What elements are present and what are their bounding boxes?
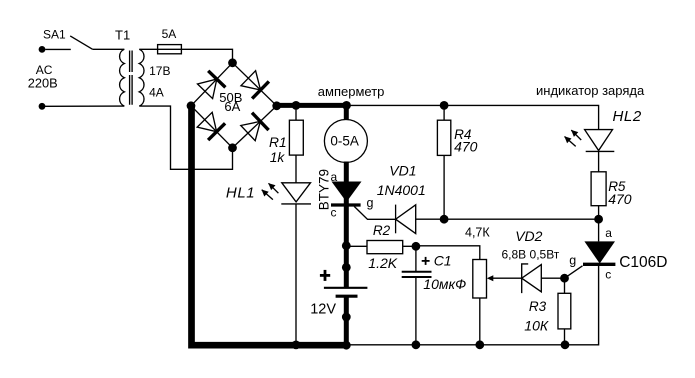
wire switch to transformer primary — [92, 48, 124, 50]
R1 leads — [295, 105, 297, 182]
bridge node top — [228, 58, 237, 67]
C106D cathode to bus — [346, 264, 598, 345]
svg-text:5А: 5А — [162, 27, 177, 41]
ammeter 0-5A — [324, 120, 367, 163]
svg-text:12V: 12V — [310, 302, 336, 318]
node R3 bottom — [561, 340, 570, 349]
fuse 5A — [158, 45, 182, 54]
label + battery — [320, 270, 330, 281]
svg-text:c: c — [605, 268, 611, 282]
label + C1 — [422, 257, 430, 265]
bridge diode top-left — [198, 71, 226, 99]
node pot bottom — [475, 340, 484, 349]
svg-text:g: g — [569, 253, 576, 267]
svg-text:HL1: HL1 — [226, 184, 255, 201]
svg-text:g: g — [367, 196, 374, 210]
thyristor BTY79 — [331, 162, 396, 288]
node VD1/R4 — [440, 215, 449, 224]
transformer T1 secondary winding — [139, 49, 144, 106]
resistor R3 — [558, 278, 571, 345]
node battery plus — [342, 263, 351, 272]
negative thick bus — [192, 106, 347, 345]
bridge diode bottom-left — [197, 112, 225, 140]
bridge node left — [187, 101, 196, 110]
node R2 right — [412, 242, 421, 251]
LED HL2 — [564, 130, 614, 172]
transformer core — [129, 51, 131, 105]
potentiometer 4.7K — [473, 260, 522, 345]
svg-text:BTY79: BTY79 — [316, 169, 331, 210]
svg-text:1.2K: 1.2K — [368, 255, 397, 271]
resistor R4 — [437, 105, 450, 219]
transformer T1 primary winding — [120, 49, 125, 106]
LED HL1 — [262, 183, 312, 345]
svg-text:6А: 6А — [224, 99, 240, 114]
svg-text:VD1: VD1 — [389, 162, 416, 178]
svg-text:a: a — [331, 170, 338, 184]
zener VD2 — [522, 264, 565, 293]
capacitor C1 — [402, 246, 432, 344]
node gate junction — [560, 274, 569, 283]
resistor R1 — [289, 120, 303, 155]
svg-text:T1: T1 — [115, 27, 130, 42]
node C1 bottom — [412, 340, 421, 349]
svg-text:6,8В 0,5Вт: 6,8В 0,5Вт — [502, 248, 560, 262]
node R2 tap — [342, 241, 351, 250]
bridge arm wires — [191, 63, 233, 106]
svg-text:c: c — [331, 206, 337, 220]
svg-text:амперметр: амперметр — [318, 84, 385, 99]
node R1 top — [292, 101, 301, 110]
svg-text:C1: C1 — [434, 252, 452, 268]
svg-text:индикатор заряда: индикатор заряда — [536, 83, 645, 98]
node battery minus — [342, 313, 351, 322]
wire secondary top through fuse to bridge top — [139, 49, 232, 63]
AC terminal bottom — [39, 103, 46, 110]
svg-text:220В: 220В — [28, 76, 58, 91]
svg-text:SA1: SA1 — [43, 28, 66, 42]
svg-text:C106D: C106D — [619, 254, 667, 271]
node R5/C106D — [594, 215, 603, 224]
wire primary bottom to AC terminal — [45, 105, 124, 107]
svg-text:10К: 10К — [524, 318, 549, 334]
wire R2 node to potentiometer — [416, 246, 480, 260]
wire VD1 to right — [416, 218, 599, 220]
positive bus (ammeter line) — [277, 103, 347, 108]
top wire to HL2 branch — [347, 105, 599, 129]
svg-text:10мкФ: 10мкФ — [423, 276, 466, 292]
resistor R2 — [346, 241, 416, 254]
svg-text:4,7К: 4,7К — [465, 226, 490, 240]
svg-text:4А: 4А — [149, 85, 164, 99]
resistor R5 — [591, 172, 606, 219]
svg-text:a: a — [605, 226, 612, 240]
svg-text:1N4001: 1N4001 — [377, 182, 426, 198]
svg-text:R1: R1 — [269, 135, 287, 150]
node ammeter bus — [342, 101, 351, 110]
svg-text:R2: R2 — [373, 223, 391, 238]
bridge node bottom — [228, 143, 237, 152]
svg-text:HL2: HL2 — [613, 108, 642, 125]
bridge diode bottom-right — [241, 113, 269, 141]
thyristor C106D — [565, 219, 616, 278]
svg-text:0-5A: 0-5A — [330, 133, 359, 148]
AC terminal top — [39, 46, 46, 53]
svg-text:R3: R3 — [529, 299, 547, 314]
wire secondary bottom to bridge bottom — [139, 106, 232, 169]
ammeter lead top — [344, 105, 349, 120]
svg-text:470: 470 — [454, 138, 478, 154]
switch SA1 — [45, 48, 71, 50]
bridge diode top-right — [241, 71, 269, 99]
node R4 top — [440, 101, 449, 110]
svg-text:1k: 1k — [270, 150, 286, 165]
node bus battery — [342, 341, 351, 350]
node HL1 bottom — [292, 341, 301, 350]
svg-text:470: 470 — [608, 191, 632, 207]
svg-text:17В: 17В — [149, 64, 170, 78]
diode VD1 — [396, 205, 416, 234]
bridge node right — [272, 101, 281, 110]
battery 12V — [324, 288, 368, 345]
svg-text:VD2: VD2 — [515, 228, 542, 244]
